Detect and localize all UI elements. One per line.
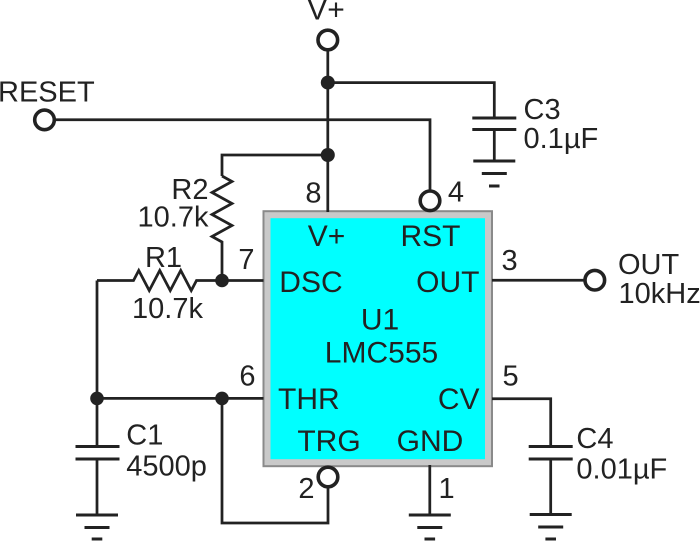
svg-text:THR: THR	[278, 383, 340, 416]
svg-text:1: 1	[439, 473, 455, 505]
svg-text:CV: CV	[438, 383, 480, 416]
svg-text:C3: C3	[524, 94, 561, 126]
svg-text:3: 3	[502, 245, 518, 277]
svg-text:4500p: 4500p	[126, 451, 207, 483]
svg-text:RST: RST	[401, 220, 461, 253]
svg-text:C4: C4	[576, 423, 613, 455]
svg-text:2: 2	[298, 473, 314, 505]
svg-text:0.01µF: 0.01µF	[576, 454, 667, 486]
svg-text:10kHz: 10kHz	[619, 278, 700, 310]
svg-text:4: 4	[448, 177, 464, 209]
svg-text:RESET: RESET	[0, 77, 95, 109]
svg-text:8: 8	[305, 178, 321, 210]
svg-text:LMC555: LMC555	[325, 337, 438, 370]
svg-text:V+: V+	[307, 0, 345, 27]
svg-text:V+: V+	[308, 220, 346, 253]
svg-text:OUT: OUT	[416, 266, 479, 299]
svg-text:0.1µF: 0.1µF	[524, 123, 599, 155]
svg-text:OUT: OUT	[618, 249, 680, 281]
svg-text:TRG: TRG	[297, 425, 360, 458]
svg-text:10.7k: 10.7k	[132, 293, 203, 325]
svg-text:7: 7	[238, 244, 254, 276]
svg-text:C1: C1	[126, 420, 163, 452]
svg-text:GND: GND	[397, 425, 464, 458]
svg-text:DSC: DSC	[279, 266, 342, 299]
svg-text:R1: R1	[145, 242, 182, 274]
svg-text:10.7k: 10.7k	[138, 202, 209, 234]
svg-text:5: 5	[503, 361, 519, 393]
svg-text:6: 6	[239, 361, 255, 393]
svg-text:U1: U1	[361, 304, 399, 337]
